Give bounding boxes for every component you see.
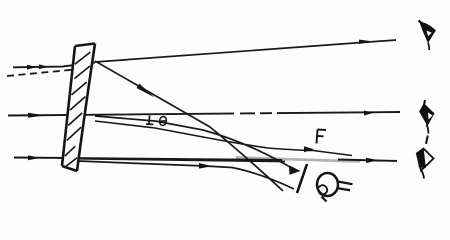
bulb: right contact tick lower	[337, 188, 351, 190]
arrow on R1	[359, 40, 374, 44]
eye bottom	[417, 136, 434, 179]
wire: ray through focus F	[95, 121, 352, 156]
label theta	[159, 116, 167, 126]
wire: steep ray from mirror top to bulb	[95, 61, 283, 191]
wire: incident ray L1 top-left solid	[13, 63, 95, 68]
angle tick for theta	[146, 116, 154, 125]
arrow on F ray	[304, 146, 314, 152]
mirror hatching	[65, 52, 90, 166]
wire: bottom horizontal ray left part	[14, 158, 282, 161]
wire: lowest ray descending to bulb base	[78, 161, 294, 189]
bulb: slash electrode	[297, 164, 307, 193]
arrow on bottom right segment	[366, 158, 379, 163]
bulb: right contact tick upper	[338, 182, 353, 185]
wire: dashed ray L2 below L1	[7, 69, 85, 77]
bulb: bottom tip	[322, 197, 327, 202]
arrow on L1 (first)	[27, 65, 37, 70]
wire: middle horizontal ray (left part + right part to middle eye)	[8, 112, 400, 116]
label F	[317, 130, 327, 144]
arrow on steep ray	[137, 84, 155, 98]
arrow on L1 (second)	[39, 64, 48, 69]
wire: low ray descending into bulb	[80, 159, 285, 162]
arrow on middle ray right	[364, 111, 374, 116]
mirror M1 (concave, hatched)	[62, 44, 95, 172]
eye middle	[420, 100, 434, 134]
wire: theta ray from mirror middle to bulb	[95, 116, 295, 170]
gaps in middle ray (scan fade)	[234, 111, 240, 115]
eye top	[419, 21, 437, 51]
arrowhead converging at bulb	[289, 165, 301, 175]
wire: reflected ray R1 to top eye	[95, 40, 396, 62]
wire: bottom right ray segment to bottom eye	[338, 160, 397, 162]
gray faded ray segment near bulb	[236, 158, 360, 162]
bulb: filament squiggle	[319, 185, 328, 194]
arrow on low ray	[199, 163, 212, 169]
arrow on middle ray left	[28, 113, 45, 118]
arrow on bottom-left ray	[28, 155, 40, 160]
bulb: glass envelope circle	[317, 173, 338, 196]
